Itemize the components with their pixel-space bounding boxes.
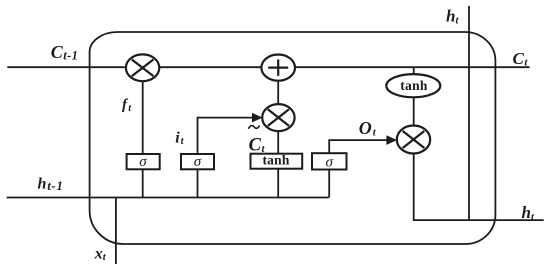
wire output gate column with arrow to multiply node xyxy=(329,140,388,197)
tanh box candidate gate xyxy=(251,153,303,169)
arrowhead into candidate multiply node xyxy=(252,113,263,123)
svg-text:Ct: Ct xyxy=(249,135,266,155)
svg-text:σ: σ xyxy=(325,154,333,170)
multiply node forget gate xyxy=(126,54,159,81)
wire input gate column with arrow to multiply node xyxy=(198,118,254,198)
add node xyxy=(261,55,295,81)
svg-text:ft: ft xyxy=(122,97,132,114)
svg-text:σ: σ xyxy=(139,154,147,170)
arrowhead into output multiply node xyxy=(386,135,397,145)
svg-text:tanh: tanh xyxy=(400,78,428,93)
multiply node candidate xyxy=(262,104,294,131)
wire h(t-1) line bottom horizontal xyxy=(7,197,329,199)
svg-text:Ot: Ot xyxy=(359,118,377,139)
wire x(t) vertical xyxy=(115,198,117,265)
sigma box forget gate xyxy=(127,154,160,170)
tilde accent over candidate C xyxy=(248,126,259,129)
wire h(t) up branch vertical xyxy=(468,6,470,220)
svg-text:Ct-1: Ct-1 xyxy=(51,42,79,63)
sigma box input gate xyxy=(181,154,214,170)
wire forget gate column xyxy=(142,67,144,197)
svg-text:tanh: tanh xyxy=(262,153,289,168)
svg-text:xt: xt xyxy=(94,246,107,264)
cell body rounded rectangle xyxy=(90,32,496,244)
svg-text:Ct: Ct xyxy=(513,49,529,69)
svg-text:σ: σ xyxy=(194,154,202,170)
svg-text:ht: ht xyxy=(446,7,459,27)
wire candidate column xyxy=(277,67,279,197)
wire C line top horizontal xyxy=(7,66,529,68)
tanh ellipse on cell output xyxy=(386,74,440,97)
sigma box output gate xyxy=(312,153,347,170)
svg-text:ht: ht xyxy=(522,203,535,223)
svg-text:ht-1: ht-1 xyxy=(38,175,64,193)
wire tanh output column xyxy=(414,67,544,220)
svg-text:it: it xyxy=(175,130,184,148)
multiply node output gate xyxy=(397,126,430,154)
